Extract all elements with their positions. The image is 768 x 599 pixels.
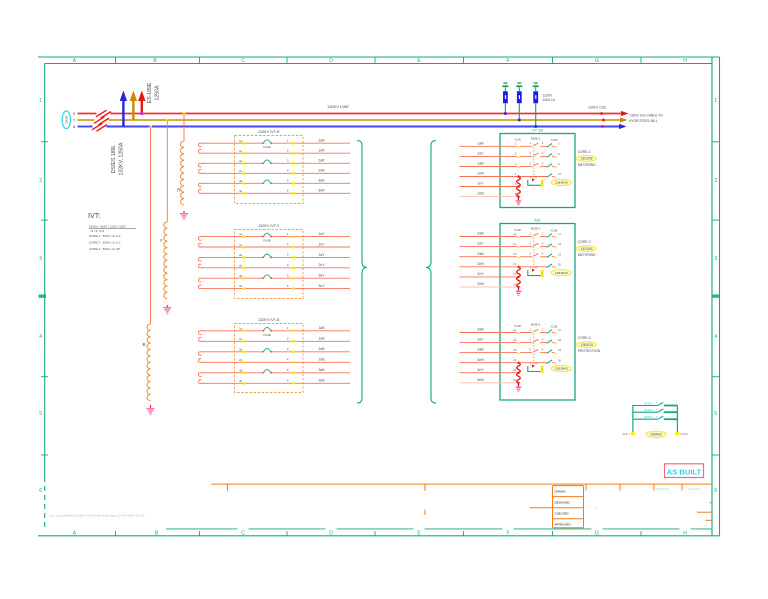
fuse 3 IVT-B (262, 369, 272, 374)
svg-text:2aR: 2aR (318, 159, 325, 163)
secondary winding 2 IVT-Y (198, 257, 204, 267)
svg-text:1nY: 1nY (318, 242, 325, 246)
terminal strip X13B headers (MCB-3 group) (514, 324, 557, 328)
wire 2nY to junction box (460, 272, 518, 277)
wire 2aR secondary lead (203, 159, 350, 165)
label METERING (578, 253, 596, 257)
terminal X13B-28 (554, 338, 562, 344)
terminal X13B-1 (515, 142, 521, 148)
surge arrester LA1 132kV 10kA (502, 82, 509, 115)
isolating link row 3 (MCB-2 side) (547, 254, 555, 258)
svg-text:3: 3 (714, 256, 717, 262)
label 132KV CSE (588, 106, 607, 110)
breaker pole 2 of MCB-3 (520, 337, 547, 343)
ground IVT-B primary (147, 409, 155, 415)
wire 2aR to junction box (460, 232, 518, 237)
svg-text:132/2A3: 132/2A3 (581, 247, 593, 251)
label CORE-3 (578, 336, 591, 340)
wire B-phase 132kV bus (78, 126, 620, 128)
transformer 132KV IVT-R secondary box (235, 130, 304, 204)
svg-text:12.04.2004: 12.04.2004 (688, 487, 702, 491)
svg-text:Y: Y (160, 238, 163, 243)
jumper (red) shorting neutral terminals (517, 266, 521, 291)
svg-text:CORE 3 : 50VA, CL-3P: CORE 3 : 50VA, CL-3P (89, 247, 120, 251)
terminal strip X13B headers (MCB-2 group) (514, 228, 557, 232)
fuse 3 IVT-R (262, 180, 272, 185)
wire 2nR to junction box (460, 262, 518, 267)
svg-text:MCB-1: MCB-1 (531, 136, 540, 140)
breaker pole 1 of MCB-2 (520, 231, 547, 237)
secondary winding 1 IVT-R (198, 143, 204, 153)
wire 3nB to junction box (460, 378, 518, 383)
svg-text:MCB-1: MCB-1 (644, 401, 653, 405)
earth switch arrow R-phase (138, 91, 145, 114)
surge arrester LA3 132kV 10kA (532, 82, 539, 128)
svg-text:MCB-3: MCB-3 (531, 323, 540, 327)
svg-text:1nY: 1nY (477, 182, 484, 186)
svg-text:3nB: 3nB (477, 378, 484, 382)
svg-text:27: 27 (558, 328, 562, 332)
node phase R (73, 112, 76, 116)
svg-text:19: 19 (558, 252, 562, 256)
terminal strip X13B headers (MCB-1 group) (514, 138, 557, 142)
svg-text:1aY: 1aY (318, 232, 325, 236)
breaker MCB-2 (supply ladder) (633, 408, 678, 412)
terminal X13B-25 (513, 368, 520, 374)
wire 3aY secondary lead (203, 273, 350, 279)
svg-text:APPROVED: APPROVED (555, 523, 571, 527)
label 132/2A5 (highlighted) (577, 155, 597, 161)
transformer 132KV IVT-Y secondary box (235, 224, 304, 299)
cable tag 12B39HS (MCB-1) (551, 179, 571, 185)
svg-text:3nR: 3nR (318, 189, 325, 193)
svg-text:G: G (595, 58, 599, 64)
wire 3nR secondary lead (203, 189, 350, 195)
svg-text:2aY: 2aY (477, 242, 484, 246)
wire neutral link row to isolating switch (520, 176, 547, 178)
terminal X13B-2 (515, 152, 521, 158)
node phase Y (73, 118, 76, 122)
breaker linkage (dashed) MCB-2 (533, 235, 535, 270)
svg-text:2a: 2a (239, 159, 243, 163)
title block signature entries (cyan) (657, 487, 702, 491)
isolating link row 4 (MCB-1 side) (547, 174, 555, 178)
breaker MCB-1 (supply ladder) (633, 401, 678, 405)
cable arrow Y-phase (620, 117, 628, 122)
svg-text:MK: MK (535, 218, 541, 223)
terminal X13B-10 (554, 172, 562, 178)
wire 3aR secondary lead (203, 179, 350, 185)
isolating link row 1 (MCB-3 side) (547, 330, 555, 334)
node tap junction Y-phase (166, 119, 169, 122)
svg-text:METERING: METERING (578, 163, 596, 167)
auxiliary contact loop terminals 7-8 (MCB-3) (528, 362, 544, 373)
wire 2nR secondary lead (203, 169, 350, 175)
IVT-Y primary winding (160, 120, 168, 307)
wire 3aY to junction box (460, 338, 518, 343)
svg-text:CORE 1 : 50VA, CL-0.2: CORE 1 : 50VA, CL-0.2 (89, 234, 121, 238)
wire 1nB secondary lead (203, 337, 350, 343)
wire 3nR to junction box (460, 358, 518, 363)
svg-text:11: 11 (513, 232, 516, 236)
label CORE-2 (578, 240, 591, 244)
wire 1aB secondary lead (203, 326, 350, 332)
terminal X13B-30 (554, 358, 562, 364)
svg-text:2nY: 2nY (318, 263, 325, 267)
svg-text:2a: 2a (239, 347, 243, 351)
isolating link row 3 (MCB-1 side) (547, 164, 555, 168)
transformer 132KV IVT-B secondary box (235, 318, 304, 393)
svg-text:18: 18 (558, 242, 562, 246)
svg-text:2aR: 2aR (477, 232, 484, 236)
ground neutral (MCB-2 group) (516, 291, 522, 295)
svg-text:2: 2 (714, 178, 717, 184)
label 1282/G4 (highlighted) (577, 342, 597, 348)
breaker MCB-1 label (531, 136, 540, 140)
wire 1aR secondary lead (203, 138, 350, 144)
svg-text:2aB: 2aB (318, 347, 325, 351)
label DS/ES 189L 132KV 1250A (111, 142, 125, 176)
svg-text:132/2A5: 132/2A5 (581, 157, 593, 161)
svg-text:4: 4 (39, 334, 42, 340)
svg-text:132KV LINE: 132KV LINE (327, 104, 349, 109)
cable arrow R-phase (621, 111, 629, 116)
svg-text:6: 6 (39, 488, 42, 494)
ground neutral (MCB-1 group) (516, 201, 522, 205)
svg-text:MCB-2: MCB-2 (644, 408, 653, 412)
terminal X13B-13 (513, 252, 520, 258)
disconnect/earth switch DS/ES 189L (blades) (92, 110, 111, 131)
secondary winding 3 IVT-B (198, 373, 204, 384)
title block (211, 484, 712, 515)
svg-text:MCB-2: MCB-2 (531, 227, 540, 231)
svg-text:6: 6 (714, 488, 717, 494)
svg-text:15: 15 (513, 272, 517, 276)
svg-text:20: 20 (558, 262, 562, 266)
svg-text:1nR: 1nR (318, 149, 325, 153)
svg-text:F: F (506, 58, 509, 64)
fuse 1 IVT-B (262, 327, 272, 336)
wire 1nR to junction box (460, 172, 518, 177)
svg-text:14: 14 (513, 262, 517, 266)
breaker linkage (dashed) MCB-1 (533, 144, 535, 179)
label ES-189E 1250A (147, 82, 161, 103)
ground IVT-Y primary (163, 308, 171, 314)
svg-text:X13.7: X13.7 (622, 432, 630, 436)
stamp AS BUILT (665, 464, 704, 478)
cable bundle brace (right) (426, 141, 436, 404)
svg-text:H: H (683, 58, 687, 64)
terminal X13B-27 (554, 328, 562, 334)
fuse 1 IVT-Y (262, 233, 272, 242)
svg-text:2n: 2n (239, 358, 243, 362)
wire 2nB secondary lead (203, 358, 350, 364)
svg-text:D: D (329, 58, 333, 64)
secondary winding 2 IVT-R (198, 163, 204, 173)
node tap junction B-phase (149, 125, 152, 128)
auxiliary contact loop terminals 7-8 (MCB-1) (528, 175, 544, 186)
svg-text:132KV: 132KV (543, 94, 553, 98)
terminal X13B-16 (513, 282, 520, 288)
fuse 2 IVT-R (262, 160, 272, 165)
svg-text:1282/G4: 1282/G4 (580, 343, 592, 347)
svg-text:3a: 3a (239, 179, 243, 183)
wire 2nY secondary lead (203, 263, 350, 269)
isolating link row 1 (MCB-1 side) (547, 143, 555, 147)
svg-text:X13B: X13B (551, 228, 558, 232)
svg-text:1aY: 1aY (477, 152, 484, 156)
svg-text:132KV IVT-Y: 132KV IVT-Y (258, 224, 280, 228)
breaker MCB-2 label (531, 227, 540, 231)
svg-text:12: 12 (513, 242, 517, 246)
svg-text:X13B: X13B (551, 324, 558, 328)
svg-text:1n: 1n (239, 243, 243, 247)
wire neutral link row to isolating switch (520, 266, 547, 268)
svg-text:29: 29 (558, 348, 562, 352)
svg-text:C: C (241, 58, 245, 64)
svg-text:2: 2 (39, 178, 42, 184)
svg-text:2nB: 2nB (477, 282, 484, 286)
svg-text:132KV U/G CABLE TO: 132KV U/G CABLE TO (629, 113, 663, 117)
breaker linkage (dashed) MCB-3 (533, 331, 535, 366)
svg-text:21: 21 (513, 328, 517, 332)
svg-text:1aR: 1aR (477, 141, 484, 145)
svg-text:H: H (683, 531, 687, 537)
svg-text:AS BUILT: AS BUILT (667, 467, 702, 476)
label 132KV U/G CABLE TO HYDR STEEL MILL (629, 113, 663, 123)
cable arrow B-phase (619, 124, 627, 129)
svg-text:22: 22 (513, 338, 517, 342)
svg-text:1nB: 1nB (477, 192, 484, 196)
isolating link row 4 (MCB-2 side) (547, 264, 555, 268)
node 132kV incomer bushing label (cyan oval) (62, 111, 70, 129)
isolating link row 4 (MCB-3 side) (547, 360, 555, 364)
wire 1aY secondary lead (203, 232, 350, 238)
svg-text:3nY: 3nY (318, 284, 325, 288)
wire 3aB to junction box (460, 348, 518, 353)
jumper (red) shorting neutral terminals (517, 362, 521, 387)
cable bundle brace (left) (357, 141, 367, 404)
terminal X13B-17 (554, 232, 562, 238)
label 132/2A3 (highlighted) (577, 246, 597, 252)
svg-text:CORE-1: CORE-1 (578, 150, 591, 154)
terminal X13B-18 (554, 242, 562, 248)
terminal X13B-29 (554, 348, 562, 354)
svg-text:FUSE: FUSE (263, 239, 271, 243)
svg-text:3nR: 3nR (477, 358, 484, 362)
svg-text:17: 17 (558, 232, 562, 236)
terminal X13B-7 (554, 142, 560, 148)
svg-text:189JM: 189JM (65, 116, 69, 124)
secondary winding 1 IVT-B (198, 331, 204, 342)
svg-text:132KV IVT-R: 132KV IVT-R (258, 130, 280, 134)
svg-text:METERING: METERING (578, 253, 596, 257)
wire 2aY to junction box (460, 242, 518, 247)
svg-text:MCB-3: MCB-3 (644, 415, 653, 419)
breaker pole 2 of MCB-2 (520, 241, 547, 247)
svg-text:PROTECTION: PROTECTION (578, 349, 601, 353)
svg-text:1n: 1n (239, 149, 243, 153)
svg-text:1nR: 1nR (477, 172, 484, 176)
svg-text:B: B (143, 342, 146, 347)
svg-text:X13B: X13B (551, 138, 558, 142)
svg-text:CORE-3: CORE-3 (578, 336, 591, 340)
svg-text:HYDR STEEL MILL: HYDR STEEL MILL (629, 119, 658, 123)
svg-text:1aB: 1aB (477, 162, 484, 166)
svg-text:1a: 1a (239, 232, 243, 236)
svg-text:3a: 3a (239, 274, 243, 278)
svg-text:3n: 3n (239, 189, 243, 193)
svg-text:3n: 3n (239, 379, 243, 383)
svg-text:132KV IVT-B: 132KV IVT-B (258, 318, 280, 322)
surge arrester LA2 132kV 10kA (516, 82, 523, 121)
isolating link row 1 (MCB-2 side) (547, 234, 555, 238)
secondary winding 3 IVT-R (198, 183, 204, 193)
wire 3nY secondary lead (203, 284, 350, 290)
terminal X13B-20 (554, 262, 562, 268)
wire 1nY secondary lead (203, 242, 350, 248)
svg-text:2nR: 2nR (477, 262, 484, 266)
svg-text:1aR: 1aR (318, 139, 325, 143)
ground neutral (MCB-3 group) (516, 387, 522, 391)
svg-text:10KA LA: 10KA LA (543, 98, 556, 102)
wire 3aR to junction box (460, 328, 518, 333)
svg-text:FUSE: FUSE (263, 333, 271, 337)
title block corner details (right) (697, 503, 713, 521)
wire supply rail X13.7 (622, 405, 635, 436)
svg-text:DRAWN: DRAWN (555, 490, 566, 494)
fuse 2 IVT-Y (262, 254, 272, 259)
ground IVT-R primary (180, 214, 188, 220)
svg-text:REV.DATE: REV.DATE (657, 487, 670, 491)
svg-text:3aB: 3aB (318, 368, 325, 372)
terminal X13B-23 (513, 348, 520, 354)
fuse 3 IVT-Y (262, 275, 272, 280)
svg-text:2nR: 2nR (318, 169, 325, 173)
isolating link row 3 (MCB-3 side) (547, 350, 555, 354)
junction box MK (500, 218, 575, 401)
breaker pole 3 of MCB-2 (520, 252, 547, 258)
terminal X13B-14 (513, 262, 520, 268)
breaker pole 3 of MCB-3 (520, 347, 547, 353)
wire 1aB to junction box (460, 162, 518, 167)
svg-text:G: G (595, 531, 599, 537)
fuse 2 IVT-B (262, 348, 272, 353)
svg-text:24: 24 (513, 358, 517, 362)
secondary winding 3 IVT-Y (198, 278, 204, 288)
secondary winding 1 IVT-Y (198, 237, 204, 247)
svg-text:3nY: 3nY (477, 368, 484, 372)
svg-text:CHECKED: CHECKED (555, 512, 569, 516)
svg-text:10: 10 (558, 172, 562, 176)
breaker pole 2 of MCB-1 (520, 151, 547, 157)
svg-text:C: C (241, 531, 245, 537)
wire 2nB to junction box (460, 282, 518, 287)
wire 3nY to junction box (460, 368, 518, 373)
svg-text:5: 5 (39, 411, 42, 417)
isolating link row 2 (MCB-2 side) (547, 244, 555, 248)
wire 2aB secondary lead (203, 347, 350, 353)
plot stamp (50, 514, 145, 518)
svg-text:12B39HS: 12B39HS (555, 271, 568, 275)
svg-text:FUSE: FUSE (263, 145, 271, 149)
svg-text:3: 3 (39, 256, 42, 262)
terminal X13B-3 (515, 162, 521, 168)
svg-text:2n: 2n (239, 263, 243, 267)
svg-text:xxx c:\acad\dwg\132kv-ivt-sld-: xxx c:\acad\dwg\132kv-ivt-sld-as-built.d… (50, 514, 145, 518)
wire 2aB to junction box (460, 252, 518, 257)
terminal X13B-15 (513, 272, 520, 278)
label METERING (578, 163, 596, 167)
svg-text:DESIGNED: DESIGNED (555, 501, 570, 505)
terminal X13B-6 (515, 192, 521, 198)
node phase B (73, 125, 76, 129)
svg-text:25: 25 (513, 368, 517, 372)
label 132KV LINE (327, 104, 349, 109)
wire Y-phase 132kV bus (78, 119, 621, 121)
svg-text:2aB: 2aB (477, 252, 484, 256)
wire 2aY secondary lead (203, 253, 350, 259)
breaker pole 1 of MCB-3 (520, 327, 547, 333)
svg-text:5: 5 (714, 411, 717, 417)
label CORE-1 (578, 150, 591, 154)
wire 1aY to junction box (460, 152, 518, 157)
label IVT ratio / burden notes (88, 211, 136, 251)
svg-text:2nY: 2nY (477, 272, 484, 276)
svg-text:3a: 3a (239, 368, 243, 372)
label 132KV 10KA LA (543, 94, 556, 103)
jumper (red) shorting neutral terminals (517, 175, 521, 200)
svg-text:2aY: 2aY (318, 253, 325, 257)
terminal X13B-9 (554, 162, 560, 168)
wire 1nR secondary lead (203, 148, 350, 154)
svg-text:132KV CSE: 132KV CSE (588, 106, 607, 110)
terminal X13B-22 (513, 338, 520, 344)
svg-text:IVT:: IVT: (88, 211, 100, 220)
svg-text:1a: 1a (239, 326, 243, 330)
svg-text:1: 1 (714, 98, 717, 104)
svg-text:12B39HS: 12B39HS (555, 181, 568, 185)
svg-text:F: F (506, 531, 509, 537)
svg-text:13: 13 (513, 252, 517, 256)
svg-text:CORE-2: CORE-2 (578, 240, 591, 244)
svg-text:1n: 1n (239, 337, 243, 341)
svg-text:1504/02: 1504/02 (650, 433, 662, 437)
cable tag 12B39HS (MCB-3) (551, 366, 571, 372)
wire neutral link row to isolating switch (520, 362, 547, 364)
terminal X13B-5 (515, 182, 521, 188)
svg-text:3aR: 3aR (477, 328, 484, 332)
svg-text:3aR: 3aR (318, 179, 325, 183)
terminal X13B-19 (554, 252, 562, 258)
breaker pole 1 of MCB-1 (520, 141, 547, 147)
junction dots at cable take-off (600, 112, 605, 128)
terminal X13B-4 (515, 172, 521, 178)
earth switch arrow Y-phase (130, 91, 137, 121)
breaker MCB-3 label (531, 323, 540, 327)
terminal X13B-21 (513, 328, 520, 334)
svg-text:1nB: 1nB (318, 337, 325, 341)
junction box VT JB (500, 128, 575, 208)
wire 3aB secondary lead (203, 368, 350, 374)
svg-text:1: 1 (39, 98, 42, 104)
svg-text:132KV / 110V / 110V / 110: 132KV / 110V / 110V / 110V (89, 225, 126, 229)
IVT-R primary winding (177, 114, 184, 214)
title table DRAWN/DESIGNED/CHECKED/APPROVED (553, 486, 598, 528)
secondary winding 2 IVT-B (198, 352, 204, 363)
wire 1nB to junction box (460, 192, 518, 197)
svg-text:1a: 1a (239, 139, 243, 143)
